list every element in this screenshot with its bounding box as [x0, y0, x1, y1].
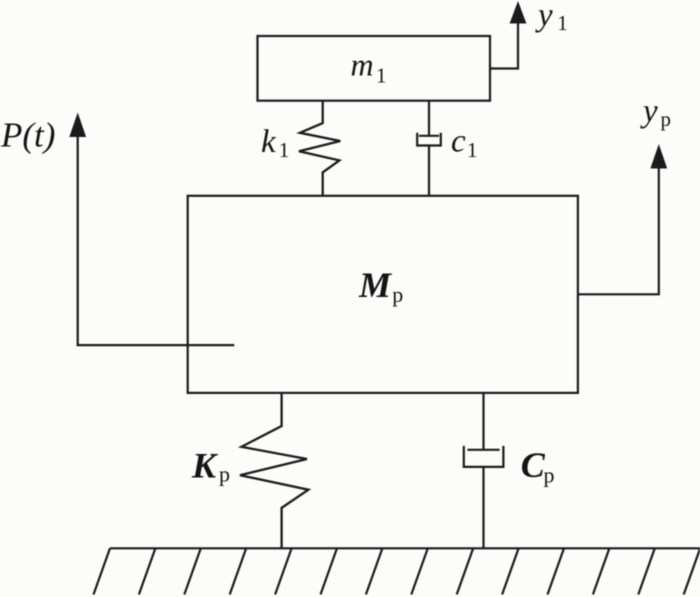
- svg-text:K: K: [191, 446, 219, 486]
- displacement arrow y1: [490, 1, 526, 69]
- svg-text:1: 1: [557, 11, 568, 35]
- svg-text:k: k: [261, 124, 277, 160]
- svg-text:p: p: [392, 282, 403, 307]
- svg-text:P(t): P(t): [0, 116, 55, 155]
- displacement arrow yp: [578, 144, 667, 294]
- svg-text:1: 1: [279, 138, 290, 162]
- svg-text:p: p: [544, 463, 555, 488]
- damper Cp: [464, 393, 504, 548]
- svg-text:C: C: [521, 445, 546, 485]
- force arrow P(t): [69, 113, 234, 346]
- svg-text:p: p: [661, 107, 672, 131]
- svg-text:y: y: [535, 0, 553, 34]
- svg-text:c: c: [451, 124, 466, 160]
- svg-text:y: y: [640, 94, 658, 130]
- svg-text:1: 1: [376, 63, 387, 87]
- mass m1: [258, 36, 491, 101]
- damper c1: [417, 100, 441, 195]
- ground: [94, 548, 700, 594]
- spring k1: [299, 100, 340, 195]
- svg-text:m: m: [351, 47, 374, 83]
- svg-text:p: p: [219, 462, 230, 487]
- spring Kp: [240, 393, 308, 548]
- mass Mp: [188, 196, 578, 393]
- svg-text:1: 1: [467, 138, 478, 162]
- svg-text:M: M: [358, 265, 393, 305]
